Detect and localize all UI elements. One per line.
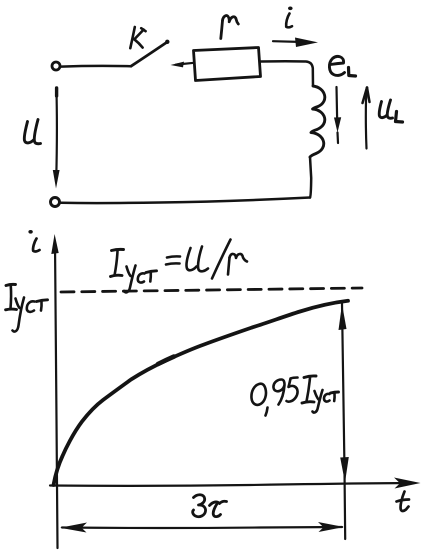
label i (current): [286, 7, 292, 28]
current arrow i: [273, 38, 318, 48]
3tau dimension line: [60, 522, 344, 533]
curve i(t) exponential rise: [54, 301, 349, 485]
x-axis: [50, 483, 414, 486]
label u_L: [379, 100, 402, 122]
label r above resistor: [221, 16, 239, 39]
wire resistor to top-right corner: [261, 61, 313, 86]
label 0,95 I_ust: [251, 376, 338, 416]
u_L arrow (up): [363, 88, 370, 149]
resistor r box: [194, 48, 261, 81]
switch K blade: [131, 43, 167, 67]
label t (x-axis): [397, 492, 410, 512]
x-axis arrowhead: [394, 478, 421, 489]
source U arrow (down) between terminals: [53, 88, 60, 189]
terminal top-left: [52, 62, 60, 70]
label i (y-axis): [28, 230, 39, 251]
label I_ust (y level): [6, 284, 48, 331]
wire coil to bottom-right corner: [310, 157, 311, 198]
wire top from terminal to switch: [61, 65, 131, 68]
bottom wire: [61, 198, 310, 204]
arrow into resistor (pointing left): [171, 62, 195, 68]
label K: [130, 27, 145, 48]
e_L arrow (down): [334, 87, 341, 143]
inductor L coil: [310, 86, 325, 157]
y-axis arrowhead: [51, 234, 58, 254]
vertical dimension line 0.95 I_ust: [339, 303, 349, 539]
terminal bottom-left: [51, 198, 60, 207]
y-axis: [55, 243, 58, 548]
dashed line I_ust level: [61, 288, 362, 292]
label U (source voltage): [24, 120, 40, 144]
formula I_ust = U/r: [111, 240, 248, 293]
label 3 tau: [193, 495, 227, 517]
curve overlap stroke (pen joint): [158, 357, 174, 365]
label e_L: [329, 56, 355, 76]
